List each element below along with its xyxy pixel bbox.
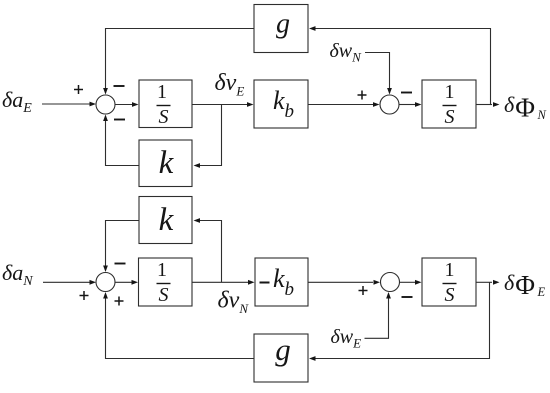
- gain block B8 minus-k_b (bottom): [255, 258, 308, 306]
- wire B9 output to delta-phi-E: [476, 280, 500, 285]
- svg-text:k: k: [159, 145, 175, 181]
- svg-text:δΦE: δΦE: [504, 270, 545, 300]
- svg-text:δvE: δvE: [215, 70, 245, 99]
- wire B4 output to delta-phi-N: [476, 102, 500, 107]
- svg-text:δΦN: δΦN: [504, 92, 546, 123]
- svg-text:1: 1: [445, 81, 455, 103]
- svg-text:S: S: [445, 284, 455, 306]
- wire feedback from output up to g: [309, 26, 491, 104]
- wire delta-v-E branch down to k: [194, 105, 222, 168]
- summing junction S2: [380, 95, 399, 114]
- minus sign at S1 bottom input: [114, 119, 125, 121]
- svg-text:δaE: δaE: [2, 87, 32, 116]
- svg-text:δaN: δaN: [2, 260, 33, 289]
- wire S2 to integrator B4: [399, 102, 422, 107]
- svg-text:g: g: [276, 9, 290, 40]
- gain block B10 g (bottom): [254, 332, 308, 382]
- svg-text:S: S: [159, 284, 169, 306]
- plus sign at S2 left input: [358, 91, 367, 100]
- svg-text:S: S: [159, 106, 169, 128]
- svg-text:kb: kb: [273, 264, 294, 300]
- wire S1 to integrator B1: [115, 102, 139, 107]
- svg-text:δvN: δvN: [218, 288, 250, 317]
- wire delta-w-E to S4 bottom: [365, 292, 391, 338]
- minus sign at S3 top input: [115, 263, 126, 265]
- wire g output to S3 bottom: [103, 292, 254, 359]
- plus sign at S3 bottom input: [115, 297, 124, 306]
- plus sign at S3 left input: [80, 291, 89, 300]
- wire delta-w-N to S2 top: [365, 53, 392, 95]
- svg-text:δwN: δwN: [330, 40, 363, 65]
- svg-text:δwE: δwE: [331, 326, 362, 351]
- wire k_b to S2: [308, 102, 380, 107]
- gain block B5 g (top): [254, 5, 308, 53]
- summing junction S4: [381, 273, 400, 292]
- wire minus-k_b to S4: [308, 280, 380, 285]
- wire B1 output to k_b with node delta-v-E: [192, 102, 254, 107]
- gain block B3 k_b (top): [254, 80, 308, 128]
- minus sign at S4 bottom input: [402, 296, 413, 298]
- wire B6 output to k_b with node delta-v-N: [192, 280, 255, 285]
- svg-text:1: 1: [157, 259, 167, 281]
- wire delta-a-N input to S3: [43, 280, 96, 285]
- wire S3 to integrator B6: [115, 280, 138, 285]
- summing junction S1: [96, 95, 115, 114]
- minus sign at S1 top input: [114, 85, 125, 87]
- svg-text:1: 1: [445, 259, 455, 281]
- wire delta-v-N branch up to k: [194, 218, 222, 282]
- svg-text:k: k: [159, 202, 175, 238]
- summing junction S3: [96, 273, 115, 292]
- integrator block B9 1/S: [422, 258, 476, 306]
- wire feedback from output down to g: [309, 282, 490, 361]
- svg-text:1: 1: [157, 81, 167, 103]
- wire S4 to integrator B9: [400, 280, 422, 285]
- gain block B2 k (top feedback): [139, 140, 192, 187]
- plus sign at S1 left input: [74, 85, 83, 94]
- minus sign at S2 top input: [401, 92, 412, 94]
- wire g output to S1 top: [103, 29, 254, 95]
- integrator block B6 1/S: [139, 258, 193, 306]
- wire k output to S3 top: [103, 221, 139, 273]
- integrator block B1 1/S: [139, 80, 192, 128]
- svg-text:S: S: [445, 106, 455, 128]
- svg-text:kb: kb: [273, 86, 294, 122]
- wire delta-a-E input to S1: [42, 102, 96, 107]
- integrator block B4 1/S: [422, 80, 476, 128]
- svg-text:g: g: [275, 332, 291, 367]
- plus sign at S4 left input: [359, 286, 368, 295]
- wire k output to S1 bottom: [103, 115, 139, 166]
- gain block B7 k (bottom feedback): [139, 197, 192, 244]
